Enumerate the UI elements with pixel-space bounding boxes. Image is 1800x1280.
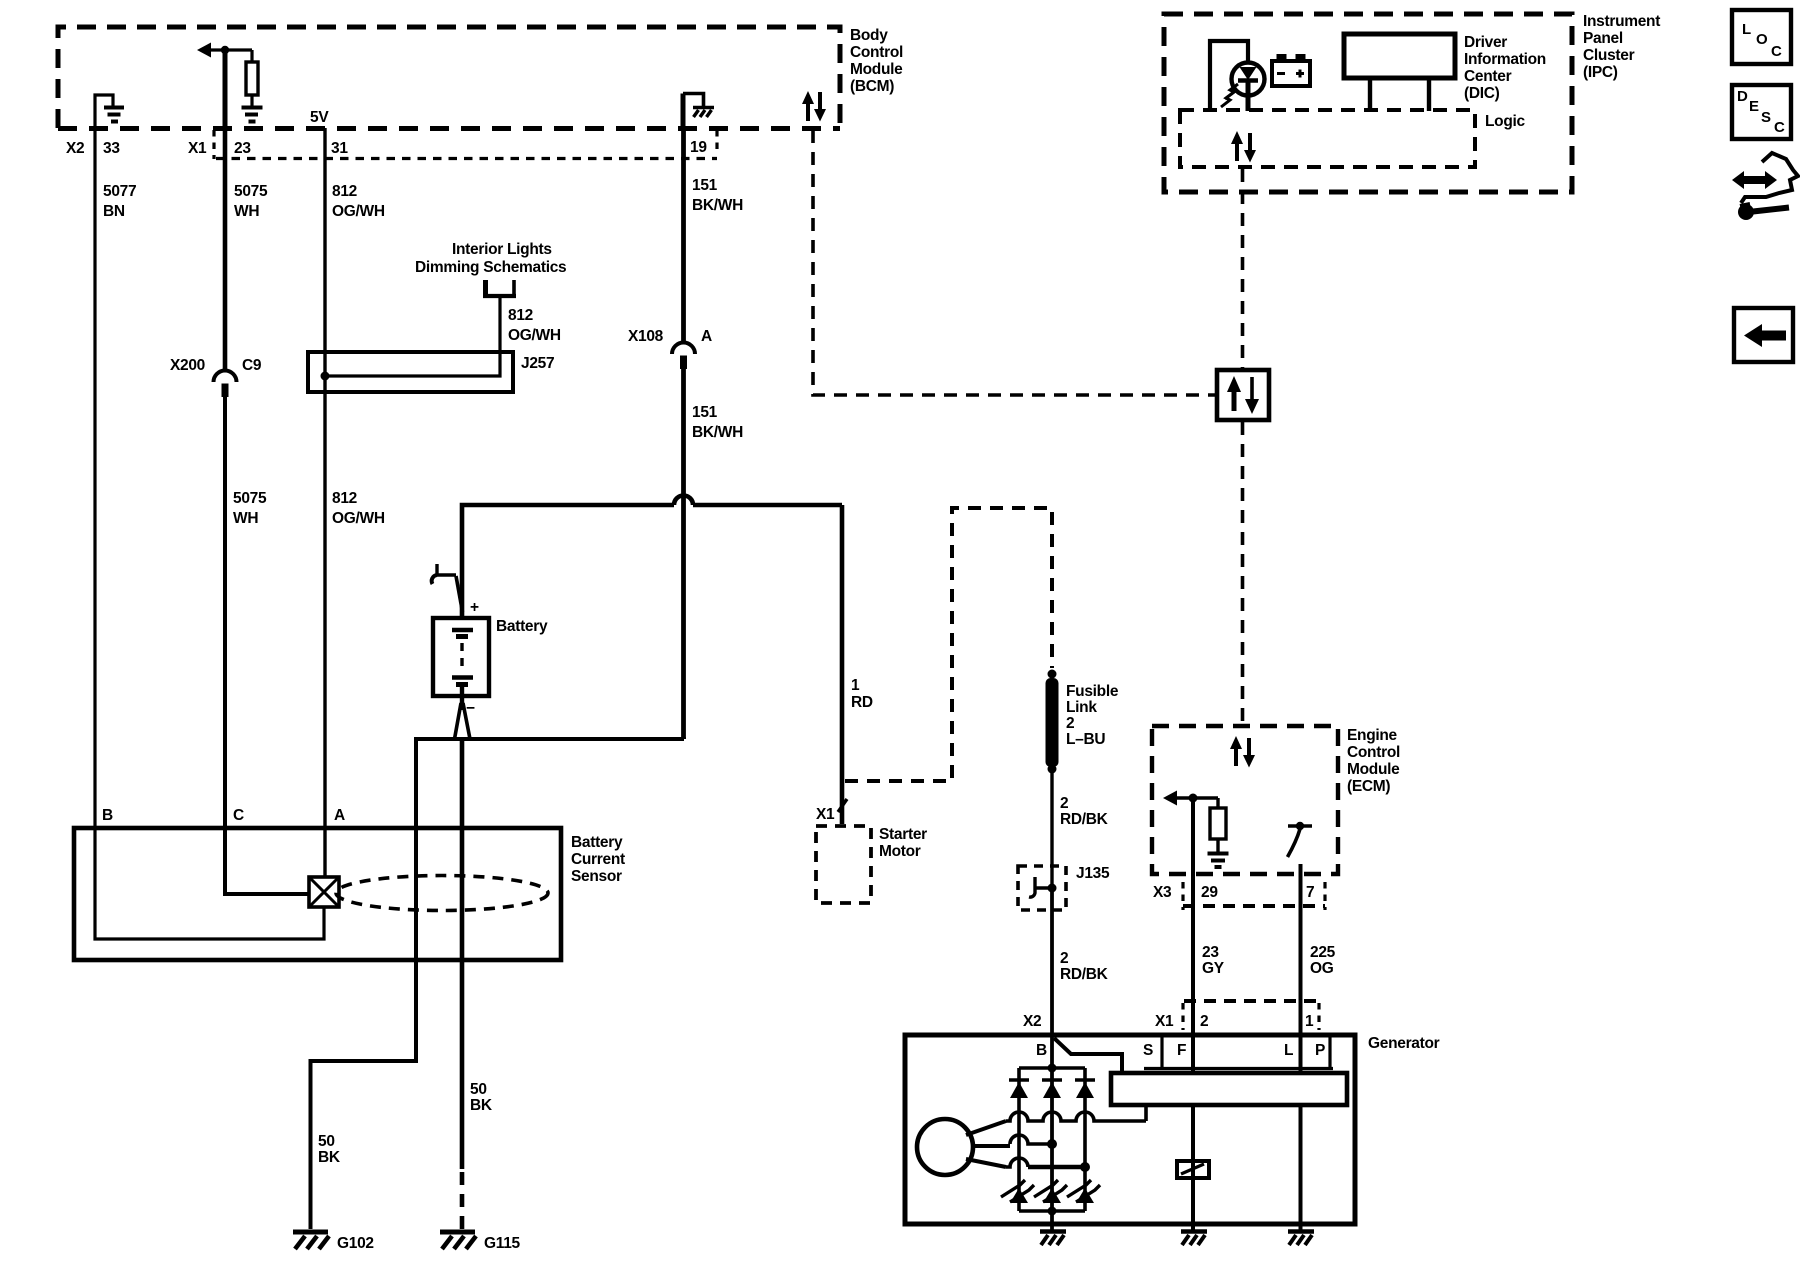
- wire label 225 OG: [1310, 944, 1336, 977]
- svg-text:151: 151: [692, 177, 718, 194]
- svg-text:WH: WH: [234, 203, 259, 220]
- wire 2 RD/BK (fusible link to J135): [1050, 769, 1053, 888]
- svg-text:BK: BK: [318, 1149, 341, 1166]
- wire label 5077 BN: [103, 183, 136, 220]
- svg-text:OG/WH: OG/WH: [508, 327, 561, 344]
- wire 23 GY (ECM 29 to generator F): [1191, 798, 1195, 1073]
- svg-text:GY: GY: [1202, 960, 1225, 977]
- connector bracket dotted separator at X1: [212, 130, 215, 159]
- ground (generator case, B): [1040, 1232, 1066, 1246]
- connector line X1/X2 at BCM bottom (dashed): [58, 126, 840, 131]
- svg-text:5075: 5075: [233, 490, 267, 507]
- rectifier diode D2 (top, col2): [1042, 1080, 1062, 1098]
- svg-text:50: 50: [318, 1133, 335, 1150]
- svg-text:X2: X2: [66, 140, 84, 157]
- svg-text:2: 2: [1060, 795, 1068, 812]
- wire B main into bridge: [1050, 1035, 1054, 1211]
- splice J135 dashed box: [1018, 866, 1066, 910]
- svg-text:WH: WH: [233, 510, 258, 527]
- telltale light arrows: [1221, 84, 1238, 107]
- svg-text:Driver: Driver: [1464, 34, 1507, 51]
- generator connector dashed line X1: [1184, 999, 1320, 1003]
- stator winding phase 3: [966, 1158, 1090, 1172]
- connector X200 C9 (in-line): [214, 371, 237, 398]
- field regulator element (slash box) on F wire: [1177, 1161, 1209, 1178]
- splice symbol J135: [1029, 877, 1057, 897]
- svg-text:P: P: [1315, 1042, 1325, 1059]
- ground (signal) inside BCM for pin 33: [95, 95, 124, 128]
- svg-text:C9: C9: [242, 357, 262, 374]
- wire corner 151 up / negative cable down: [681, 737, 686, 739]
- rotor (circle): [917, 1119, 973, 1175]
- svg-text:29: 29: [1201, 884, 1218, 901]
- wire label 812 OG/WH (branch): [508, 307, 561, 344]
- wire label 5075 WH (upper): [234, 183, 268, 220]
- diode column 1 wire: [1017, 1068, 1021, 1211]
- telltale charge indicator (LED in circle): [1232, 63, 1265, 112]
- svg-text:Body: Body: [850, 27, 888, 44]
- avalanche diode D6 (bottom, col3): [1067, 1180, 1100, 1203]
- svg-text:Interior Lights: Interior Lights: [452, 241, 552, 258]
- svg-text:1: 1: [1305, 1013, 1314, 1030]
- svg-text:X2: X2: [1023, 1013, 1041, 1030]
- svg-text:J257: J257: [521, 355, 554, 372]
- svg-text:(ECM): (ECM): [1347, 778, 1390, 795]
- svg-text:Fusible: Fusible: [1066, 683, 1119, 700]
- svg-text:Engine: Engine: [1347, 727, 1398, 744]
- svg-text:G102: G102: [337, 1235, 374, 1252]
- label Starter Motor: [879, 826, 927, 860]
- svg-text:Dimming Schematics: Dimming Schematics: [415, 259, 566, 276]
- svg-text:Sensor: Sensor: [571, 868, 622, 885]
- wire label 812 OG/WH (upper): [332, 183, 385, 220]
- label Battery Current Sensor: [571, 834, 625, 885]
- voltage regulator bar: [1111, 1073, 1347, 1105]
- svg-text:151: 151: [692, 404, 718, 421]
- avalanche diode D5 (bottom, col2): [1034, 1180, 1067, 1203]
- wire 151 BK/WH (X108 to battery negative splice): [681, 369, 686, 739]
- splice at battery negative: [455, 703, 471, 739]
- svg-text:(IPC): (IPC): [1583, 64, 1618, 81]
- fusible link 2 L-BU: [1046, 670, 1059, 774]
- ground (generator case, F): [1181, 1232, 1207, 1246]
- svg-text:L: L: [1742, 21, 1751, 38]
- wire 1 RD (battery positive to starter X1): [840, 505, 845, 824]
- label Instrument Panel Cluster (IPC): [1583, 13, 1660, 81]
- connector X108 A (in-line): [672, 343, 695, 370]
- svg-text:X3: X3: [1153, 884, 1172, 901]
- wire 5077 BN (circuit 5077, pin X2-33 to sensor B): [93, 128, 96, 828]
- icon button back (left arrow): [1734, 308, 1793, 362]
- svg-text:L: L: [1284, 1042, 1293, 1059]
- svg-text:X108: X108: [628, 328, 664, 345]
- junction dot B top bus: [1048, 1064, 1057, 1073]
- svg-text:C: C: [1774, 119, 1785, 136]
- wire 812 OG/WH (pin 31 to sensor A): [323, 128, 326, 828]
- wire 2 RD/BK (J135 to generator X2-B): [1050, 888, 1054, 1035]
- generator connector dotted separators: [1181, 1003, 1184, 1030]
- svg-text:812: 812: [332, 490, 357, 507]
- svg-text:Motor: Motor: [879, 843, 921, 860]
- svg-text:2: 2: [1200, 1013, 1208, 1030]
- wire label 812 OG/WH (lower): [332, 490, 385, 527]
- svg-text:C: C: [233, 807, 244, 824]
- diode bridge bottom bus: [1019, 1209, 1085, 1213]
- resistor (ECM internal): [1210, 798, 1226, 852]
- svg-text:OG/WH: OG/WH: [332, 510, 385, 527]
- module box BCM (Body Control Module) dashed outline: [58, 27, 840, 128]
- ECM connector dashed line: [1183, 904, 1325, 908]
- junction dot bottom bus: [1048, 1207, 1057, 1216]
- diode bridge top bus: [1019, 1066, 1085, 1070]
- svg-text:D: D: [1737, 88, 1748, 105]
- splice J257 box: [308, 298, 513, 392]
- svg-text:RD/BK: RD/BK: [1060, 811, 1109, 828]
- wire 151 BK/WH (pin 19 to X108): [681, 128, 686, 344]
- svg-text:1: 1: [851, 677, 860, 694]
- svg-text:L–BU: L–BU: [1066, 731, 1105, 748]
- svg-text:Instrument: Instrument: [1583, 13, 1660, 30]
- svg-text:Generator: Generator: [1368, 1035, 1440, 1052]
- svg-text:5075: 5075: [234, 183, 268, 200]
- svg-text:BN: BN: [103, 203, 125, 220]
- svg-text:B: B: [1036, 1042, 1047, 1059]
- generator internal ground wire (B column): [1050, 1211, 1054, 1230]
- label Driver Information Center (DIC): [1464, 34, 1546, 102]
- svg-text:E: E: [1749, 98, 1759, 115]
- battery cable through sensor (left, to G102): [311, 739, 417, 1229]
- wire label 23 GY: [1202, 944, 1225, 977]
- generator box: [905, 1035, 1355, 1224]
- svg-text:812: 812: [332, 183, 357, 200]
- svg-text:812: 812: [508, 307, 533, 324]
- ground (chassis) inside BCM for pin 19: [683, 94, 714, 129]
- svg-text:23: 23: [234, 140, 251, 157]
- svg-text:Module: Module: [850, 61, 903, 78]
- wire F below regulator to ground: [1191, 1105, 1195, 1230]
- starter motor dashed box: [816, 826, 871, 903]
- svg-text:5077: 5077: [103, 183, 136, 200]
- wire 5075 WH upper (pin 23 to X200): [223, 128, 228, 369]
- svg-text:BK: BK: [470, 1097, 493, 1114]
- svg-text:Panel: Panel: [1583, 30, 1623, 47]
- svg-text:C: C: [1771, 43, 1782, 60]
- rectifier diode D3 (top, col3): [1075, 1080, 1095, 1098]
- wire label 5075 WH (lower): [233, 490, 267, 527]
- wire label 50 BK (left): [318, 1133, 341, 1166]
- svg-text:BK/WH: BK/WH: [692, 197, 743, 214]
- svg-text:B: B: [102, 807, 113, 824]
- svg-text:OG: OG: [1310, 960, 1334, 977]
- label Body Control Module (BCM): [850, 27, 903, 95]
- svg-text:X1: X1: [1155, 1013, 1174, 1030]
- wire label 1 RD: [851, 677, 873, 711]
- svg-text:23: 23: [1202, 944, 1219, 961]
- svg-text:33: 33: [103, 140, 120, 157]
- svg-text:F: F: [1177, 1042, 1186, 1059]
- ground (signal) under resistor: [242, 108, 263, 122]
- battery symbol icon in DIC: [1272, 54, 1310, 86]
- svg-text:Battery: Battery: [496, 618, 548, 635]
- svg-text:7: 7: [1306, 884, 1314, 901]
- battery B1: [433, 618, 489, 710]
- svg-text:A: A: [334, 807, 345, 824]
- svg-text:Module: Module: [1347, 761, 1400, 778]
- label Engine Control Module (ECM): [1347, 727, 1400, 795]
- svg-text:S: S: [1143, 1042, 1153, 1059]
- wire L below regulator to ground: [1299, 1105, 1303, 1230]
- svg-text:(DIC): (DIC): [1464, 85, 1500, 102]
- wire C internal: [225, 828, 309, 894]
- wire label 151 BK/WH (lower): [692, 404, 743, 441]
- serial data dashed line BCM to gateway: [813, 130, 1215, 395]
- wire label 151 BK/WH (upper): [692, 177, 743, 214]
- wire battery positive (to 1 RD corner) with hop over 151 wire: [462, 496, 842, 619]
- rectifier diode D1 (top, col1): [1009, 1080, 1029, 1098]
- resistor R (BCM internal pull-up): [246, 50, 258, 106]
- wire 5075 WH lower (X200 to sensor C): [223, 397, 227, 828]
- logic box (dashed) inside IPC: [1180, 110, 1475, 167]
- wire label 50 BK (right): [470, 1081, 493, 1114]
- svg-text:(BCM): (BCM): [850, 78, 894, 95]
- svg-text:OG/WH: OG/WH: [332, 203, 385, 220]
- svg-text:Battery: Battery: [571, 834, 623, 851]
- serial data dashed line gateway to ECM: [1241, 422, 1245, 724]
- sensor clamp dashed ellipse: [336, 876, 548, 911]
- svg-text:Link: Link: [1066, 699, 1097, 716]
- wire B internal: [95, 828, 324, 939]
- battery current sensor box: [74, 828, 561, 960]
- wire label 2 RD/BK (upper): [1060, 795, 1109, 828]
- ECM internal sense arrow and node: [1163, 791, 1218, 806]
- svg-text:Center: Center: [1464, 68, 1512, 85]
- stator winding phase 2: [972, 1135, 1057, 1149]
- connector inner dotted line: [216, 157, 717, 160]
- svg-text:Control: Control: [1347, 744, 1400, 761]
- telltale indicator wiring bracket: [1210, 41, 1248, 111]
- ground G102 (chassis): [293, 1232, 329, 1249]
- serial data arrows at BCM bottom: [802, 91, 826, 122]
- svg-text:X1: X1: [816, 806, 835, 823]
- svg-text:50: 50: [470, 1081, 487, 1098]
- logic serial arrows: [1231, 131, 1256, 163]
- icon button DESC: [1732, 85, 1791, 139]
- wire pin23 internal with arrow: [197, 43, 252, 129]
- svg-text:S: S: [1761, 109, 1771, 126]
- terminal tick at starter X1: [838, 799, 847, 812]
- svg-text:Cluster: Cluster: [1583, 47, 1635, 64]
- dashed wire route starter to fusible link: [845, 508, 1052, 781]
- sensor element (box with X): [309, 877, 339, 907]
- label Fusible Link 2 L-BU: [1066, 683, 1119, 748]
- ground G115 (chassis): [440, 1232, 476, 1249]
- dashed tail of G115 cable: [460, 1172, 465, 1229]
- svg-text:A: A: [701, 328, 712, 345]
- serial data dashed line IPC to gateway: [1241, 169, 1245, 368]
- diode column 3 wire: [1083, 1068, 1087, 1211]
- battery positive cable clip symbol: [432, 564, 463, 612]
- svg-text:Control: Control: [850, 44, 903, 61]
- off-page fork to Interior Lights Dimming: [483, 280, 516, 296]
- terminal cell separators: [1144, 1037, 1333, 1069]
- wire 225 OG (ECM 7 to generator L): [1299, 864, 1303, 1073]
- ECM serial arrows: [1230, 736, 1255, 768]
- svg-text:5V: 5V: [310, 109, 329, 126]
- svg-text:Starter: Starter: [879, 826, 927, 843]
- svg-text:Current: Current: [571, 851, 625, 868]
- wire label 2 RD/BK (lower): [1060, 950, 1109, 983]
- svg-text:O: O: [1756, 31, 1768, 48]
- svg-text:−: −: [466, 700, 475, 717]
- svg-text:2: 2: [1066, 715, 1074, 732]
- switch (ECM internal, to pin 7): [1288, 822, 1313, 857]
- svg-text:+: +: [470, 599, 479, 616]
- svg-text:BK/WH: BK/WH: [692, 424, 743, 441]
- stator winding phase 1 (humps over columns): [966, 1105, 1146, 1135]
- wire battery negative bus (horizontal): [414, 737, 684, 741]
- icon compare schematics (arrows and wrench): [1732, 153, 1798, 220]
- gateway box with arrows (serial data): [1217, 370, 1269, 420]
- svg-text:225: 225: [1310, 944, 1336, 961]
- connector bracket dotted separator at pin 19: [715, 130, 718, 154]
- svg-text:31: 31: [331, 140, 348, 157]
- module box ECM (Engine Control Module) dashed outline: [1152, 726, 1338, 874]
- module box IPC (Instrument Panel Cluster) dashed outline: [1164, 14, 1572, 192]
- svg-text:Logic: Logic: [1485, 113, 1526, 130]
- svg-text:RD: RD: [851, 694, 873, 711]
- DIC display block: [1344, 34, 1455, 111]
- svg-text:X200: X200: [170, 357, 205, 374]
- svg-text:19: 19: [690, 139, 707, 156]
- label Interior Lights Dimming Schematics: [415, 241, 566, 276]
- svg-text:G115: G115: [484, 1235, 521, 1252]
- ECM connector dotted separators: [1181, 882, 1184, 910]
- icon button LOC: [1732, 10, 1791, 64]
- wire A internal: [323, 828, 326, 877]
- svg-text:J135: J135: [1076, 865, 1110, 882]
- svg-text:2: 2: [1060, 950, 1068, 967]
- ground (generator case, L): [1288, 1232, 1314, 1246]
- wire B to regulator (diagonal branch): [1054, 1038, 1122, 1073]
- battery cable through sensor (right, to G115): [460, 739, 465, 1169]
- svg-text:X1: X1: [188, 140, 207, 157]
- avalanche diode D4 (bottom, col1): [1001, 1180, 1034, 1203]
- svg-text:Information: Information: [1464, 51, 1546, 68]
- svg-text:RD/BK: RD/BK: [1060, 966, 1109, 983]
- ground (signal) under ECM resistor: [1208, 854, 1229, 868]
